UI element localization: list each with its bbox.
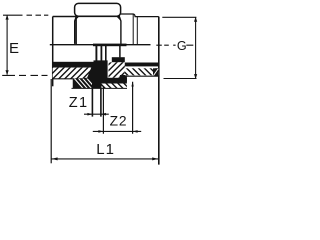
svg-text:E: E: [9, 40, 19, 57]
thread step line 1: [132, 14, 134, 45]
bush collar top profile: [121, 14, 159, 17]
thread step line 2: [136, 17, 138, 45]
nut left side: [75, 17, 77, 44]
bush flange black slab: [120, 75, 127, 82]
dim G line: [195, 17, 197, 78]
arrow Z1 left (outside pointing right): [87, 113, 92, 116]
dim G top extension: [162, 16, 196, 18]
lower-left hatch lobe: [73, 78, 97, 90]
svg-text:G: G: [177, 39, 187, 53]
svg-text:L1: L1: [96, 141, 115, 158]
dim E line: [6, 15, 8, 74]
svg-text:Z1: Z1: [69, 95, 89, 111]
bush wall edge line: [119, 46, 121, 57]
arrow L1 right: [152, 157, 158, 160]
spigot end corner black blob: [153, 68, 159, 76]
mid line dashes toward G label: [156, 44, 193, 46]
dim Z2 extension lines: [103, 82, 132, 134]
thick black mid segment: [93, 44, 127, 47]
svg-text:Z2: Z2: [110, 113, 128, 128]
dim Z1 extension lines: [92, 89, 101, 117]
nut left chamfer wedge: [75, 15, 79, 21]
union nut cap (top flat of nut): [75, 3, 121, 16]
socket body right edge: [75, 17, 77, 45]
dim E bottom extension: [2, 74, 47, 76]
spigot wall hatch band: [125, 68, 159, 75]
arrow Z2 left (outside pointing right): [98, 130, 103, 133]
spigot right end face: [158, 17, 160, 165]
bush wall hatch square: [109, 62, 125, 78]
arrow E top: [6, 15, 9, 20]
arrow Z2 right (outside pointing left): [133, 130, 138, 133]
arrow L1 left: [52, 157, 58, 160]
bush shoulder black slab: [112, 57, 125, 62]
dim Z2 line: [93, 130, 141, 132]
bottom boundary line: [72, 87, 128, 89]
bottom black band: [84, 78, 127, 84]
left body hatch bottom edge: [53, 78, 90, 80]
nut cap bottom line: [76, 15, 121, 17]
mid bore line: [50, 44, 151, 46]
lower-right hatch strip: [102, 84, 127, 89]
dim L1 line: [51, 158, 158, 160]
dim Z1 line: [84, 113, 109, 115]
nut right side: [119, 17, 121, 44]
nut right chamfer wedge: [117, 15, 121, 21]
dim L1 left extension: [50, 79, 52, 163]
arrow Z2 ext top: [131, 82, 133, 87]
dim E top extension: [3, 14, 48, 16]
dim G bottom extension: [164, 78, 197, 80]
arrow E bottom: [6, 70, 9, 75]
bottom center black taper: [85, 82, 102, 88]
left body wall hatch: [53, 68, 93, 79]
socket body left edge: [52, 17, 54, 87]
arrow G bottom: [194, 74, 197, 79]
arrow Z1 right (outside pointing left): [101, 113, 106, 116]
center black mass: [87, 60, 108, 78]
left body wall black band: [52, 62, 95, 68]
spigot wall bottom edge: [126, 75, 159, 77]
thread bars under nut: [95, 46, 97, 61]
spigot inner wall black band: [125, 63, 159, 67]
arrow G top: [194, 17, 197, 22]
socket body top edge: [53, 16, 77, 18]
